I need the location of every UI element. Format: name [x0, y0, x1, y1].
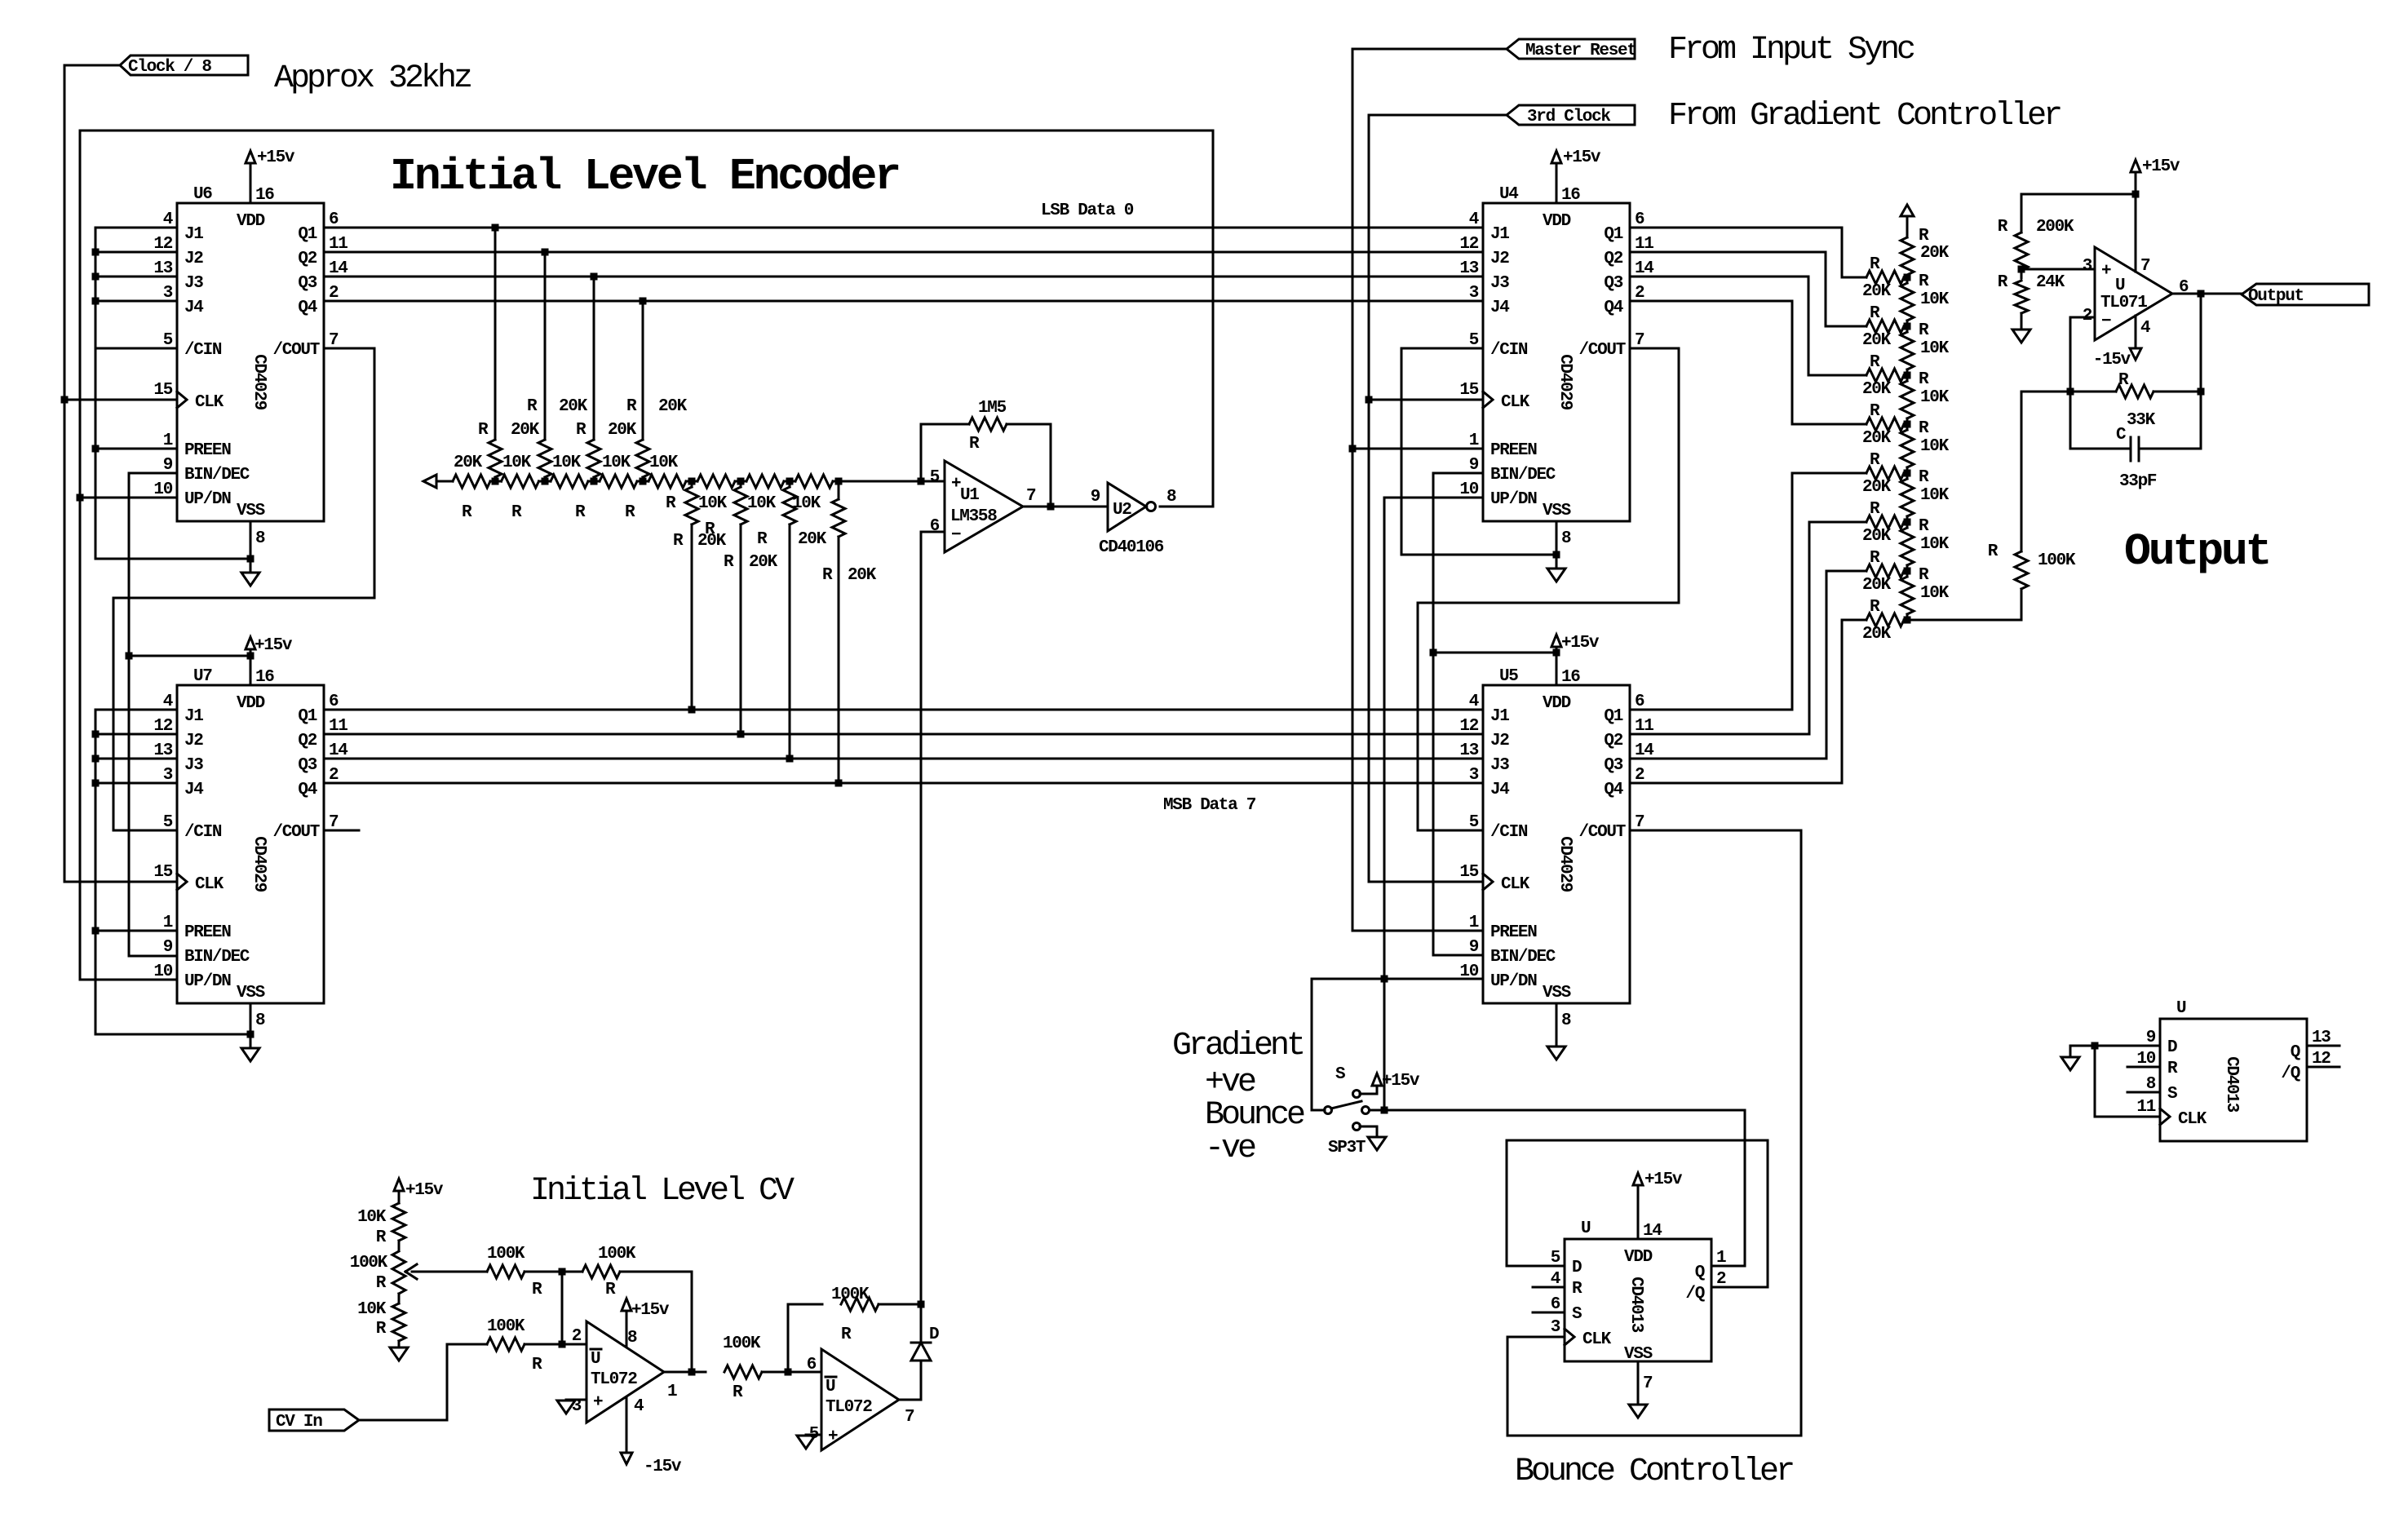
svg-text:2: 2: [2083, 307, 2092, 325]
svg-text:VDD: VDD: [1543, 212, 1571, 231]
svg-text:20K: 20K: [798, 530, 827, 549]
svg-text:R: R: [576, 421, 587, 440]
svg-text:VDD: VDD: [237, 212, 265, 231]
svg-text:10K: 10K: [357, 1300, 387, 1319]
svg-text:R: R: [1919, 468, 1929, 487]
svg-text:4: 4: [2140, 319, 2150, 338]
svg-text:1: 1: [667, 1383, 677, 1401]
svg-text:15: 15: [153, 863, 172, 882]
svg-text:1: 1: [1469, 914, 1479, 932]
svg-text:/COUT: /COUT: [272, 341, 319, 360]
svg-text:TL071: TL071: [2100, 294, 2147, 312]
svg-text:CD4029: CD4029: [1556, 836, 1574, 892]
svg-text:Q4: Q4: [1604, 299, 1622, 317]
svg-text:2: 2: [329, 766, 339, 785]
svg-text:/CIN: /CIN: [1490, 341, 1528, 360]
svg-text:3: 3: [2083, 257, 2092, 276]
svg-text:U: U: [591, 1350, 600, 1369]
svg-text:5: 5: [163, 813, 173, 832]
svg-text:2: 2: [572, 1327, 582, 1346]
svg-text:/COUT: /COUT: [1578, 341, 1625, 360]
svg-text:UP/DN: UP/DN: [184, 972, 231, 991]
svg-text:R: R: [673, 532, 684, 551]
svg-text:VSS: VSS: [1624, 1345, 1653, 1364]
svg-text:10K: 10K: [649, 454, 679, 472]
svg-text:PREEN: PREEN: [184, 923, 231, 942]
svg-text:11: 11: [1635, 235, 1653, 254]
svg-text:10K: 10K: [1920, 388, 1950, 407]
svg-text:3: 3: [163, 766, 173, 785]
svg-text:12: 12: [1459, 235, 1478, 254]
svg-text:/COUT: /COUT: [1578, 823, 1625, 842]
svg-text:5: 5: [1469, 813, 1479, 832]
svg-text:R: R: [478, 421, 489, 440]
svg-text:12: 12: [1459, 717, 1478, 736]
svg-text:10K: 10K: [1920, 339, 1950, 358]
svg-text:PREEN: PREEN: [1490, 441, 1537, 460]
svg-text:1: 1: [163, 914, 173, 932]
svg-text:20K: 20K: [511, 421, 540, 440]
svg-text:7: 7: [329, 331, 339, 350]
svg-text:Initial Level Encoder: Initial Level Encoder: [390, 151, 899, 202]
svg-text:6: 6: [1635, 210, 1644, 229]
svg-text:/Q: /Q: [1685, 1285, 1704, 1303]
svg-text:11: 11: [2136, 1098, 2155, 1117]
svg-text:U: U: [1581, 1219, 1591, 1238]
svg-text:10K: 10K: [502, 454, 532, 472]
svg-text:J4: J4: [184, 781, 203, 799]
svg-text:UP/DN: UP/DN: [184, 490, 231, 509]
svg-text:R: R: [462, 503, 472, 522]
svg-text:Approx 32khz: Approx 32khz: [274, 60, 471, 97]
svg-text:+15v: +15v: [405, 1181, 444, 1200]
svg-text:TL072: TL072: [591, 1370, 637, 1389]
svg-text:UP/DN: UP/DN: [1490, 490, 1537, 509]
svg-text:Q4: Q4: [1604, 781, 1622, 799]
svg-text:LM358: LM358: [950, 507, 997, 526]
svg-text:S: S: [1335, 1065, 1345, 1084]
svg-text:R: R: [841, 1325, 852, 1344]
svg-text:U7: U7: [193, 667, 212, 686]
svg-text:10K: 10K: [1920, 486, 1950, 505]
svg-text:14: 14: [1643, 1222, 1662, 1241]
svg-text:200K: 200K: [2036, 218, 2074, 237]
svg-text:J2: J2: [1490, 732, 1509, 750]
svg-text:7: 7: [1635, 813, 1644, 832]
svg-text:8: 8: [1561, 529, 1571, 548]
svg-text:+ve: +ve: [1205, 1064, 1255, 1101]
svg-text:8: 8: [255, 1011, 265, 1030]
svg-text:10K: 10K: [698, 494, 728, 513]
svg-text:6: 6: [2179, 278, 2189, 297]
svg-text:Q1: Q1: [1604, 225, 1622, 244]
svg-text:20K: 20K: [1862, 282, 1892, 301]
svg-text:14: 14: [329, 259, 347, 278]
svg-text:4: 4: [1469, 210, 1479, 229]
svg-text:6: 6: [930, 517, 940, 536]
svg-text:Q1: Q1: [1604, 707, 1622, 726]
svg-text:100K: 100K: [487, 1245, 525, 1263]
svg-text:20K: 20K: [1920, 244, 1950, 263]
svg-text:VDD: VDD: [1543, 694, 1571, 713]
svg-text:+15v: +15v: [2142, 157, 2180, 176]
svg-text:From Gradient Controller: From Gradient Controller: [1668, 98, 2061, 135]
svg-text:+: +: [2101, 262, 2111, 281]
svg-text:Q4: Q4: [298, 299, 316, 317]
svg-text:J3: J3: [1490, 274, 1509, 293]
svg-text:9: 9: [1469, 938, 1479, 957]
svg-text:J4: J4: [1490, 781, 1509, 799]
svg-text:3rd Clock: 3rd Clock: [1527, 108, 1610, 126]
svg-text:12: 12: [153, 717, 172, 736]
svg-text:BIN/DEC: BIN/DEC: [1490, 466, 1556, 485]
svg-text:Bounce Controller: Bounce Controller: [1515, 1454, 1793, 1490]
svg-text:8: 8: [1166, 488, 1176, 507]
svg-text:D: D: [2167, 1038, 2177, 1057]
svg-text:3: 3: [163, 284, 173, 303]
svg-text:10K: 10K: [792, 494, 821, 513]
svg-text:8: 8: [627, 1329, 637, 1347]
svg-text:20K: 20K: [1862, 429, 1892, 448]
svg-text:CD4029: CD4029: [250, 354, 268, 410]
svg-text:S: S: [2167, 1085, 2177, 1104]
svg-text:1: 1: [1469, 431, 1479, 450]
svg-text:12: 12: [2312, 1050, 2331, 1069]
svg-text:20K: 20K: [848, 566, 877, 585]
svg-text:+15v: +15v: [1382, 1072, 1420, 1091]
svg-text:20K: 20K: [658, 397, 688, 416]
svg-text:12: 12: [153, 235, 172, 254]
svg-text:6: 6: [329, 210, 339, 229]
svg-text:/Q: /Q: [2281, 1064, 2300, 1083]
svg-text:+15v: +15v: [631, 1301, 670, 1320]
svg-text:33pF: 33pF: [2119, 472, 2157, 491]
svg-text:+15v: +15v: [257, 148, 295, 167]
svg-text:20K: 20K: [1862, 576, 1892, 595]
svg-text:11: 11: [329, 235, 347, 254]
svg-text:3: 3: [1469, 284, 1479, 303]
svg-text:5: 5: [1469, 331, 1479, 350]
svg-text:20K: 20K: [608, 421, 637, 440]
svg-text:/CIN: /CIN: [1490, 823, 1528, 842]
svg-text:3: 3: [572, 1397, 582, 1416]
svg-text:Master Reset: Master Reset: [1525, 42, 1636, 60]
svg-text:CD4013: CD4013: [1627, 1277, 1645, 1333]
svg-text:Q: Q: [1695, 1263, 1705, 1282]
svg-text:4: 4: [634, 1397, 644, 1416]
svg-text:1M5: 1M5: [978, 399, 1007, 418]
svg-text:-ve: -ve: [1205, 1131, 1255, 1167]
svg-text:U: U: [2115, 277, 2125, 295]
svg-text:R: R: [1870, 500, 1880, 519]
svg-text:7: 7: [905, 1408, 914, 1427]
svg-text:R: R: [605, 1281, 616, 1299]
svg-text:7: 7: [1026, 487, 1036, 506]
svg-text:13: 13: [153, 741, 172, 760]
svg-text:20K: 20K: [1862, 380, 1892, 399]
svg-text:J3: J3: [184, 756, 203, 775]
svg-text:11: 11: [1635, 717, 1653, 736]
svg-text:U4: U4: [1499, 185, 1518, 204]
svg-text:R: R: [666, 494, 676, 513]
svg-text:R: R: [733, 1383, 743, 1402]
svg-text:D: D: [1572, 1259, 1582, 1277]
svg-text:13: 13: [2312, 1029, 2331, 1047]
svg-text:9: 9: [163, 456, 173, 475]
svg-text:100K: 100K: [350, 1254, 388, 1272]
svg-text:2: 2: [329, 284, 339, 303]
svg-text:R: R: [511, 503, 522, 522]
svg-text:4: 4: [163, 210, 173, 229]
svg-text:+: +: [593, 1393, 603, 1412]
svg-text:/COUT: /COUT: [272, 823, 319, 842]
svg-text:5: 5: [163, 331, 173, 350]
svg-text:J1: J1: [1490, 707, 1509, 726]
svg-text:CLK: CLK: [1501, 393, 1530, 412]
svg-text:R: R: [724, 553, 734, 572]
svg-text:U1: U1: [960, 486, 979, 505]
svg-text:+15v: +15v: [1644, 1170, 1683, 1189]
svg-text:Q2: Q2: [1604, 250, 1622, 268]
svg-text:U6: U6: [193, 185, 212, 204]
svg-text:Bounce: Bounce: [1205, 1097, 1304, 1134]
svg-text:S: S: [1572, 1305, 1582, 1324]
svg-text:D: D: [929, 1325, 939, 1344]
svg-text:CLK: CLK: [195, 393, 224, 412]
svg-text:VSS: VSS: [1543, 502, 1571, 520]
svg-text:20K: 20K: [1862, 478, 1892, 497]
svg-text:R: R: [1919, 321, 1929, 340]
svg-text:10: 10: [153, 480, 172, 499]
svg-text:R: R: [527, 397, 538, 416]
svg-text:Initial Level CV: Initial Level CV: [530, 1173, 795, 1210]
svg-text:100K: 100K: [487, 1317, 525, 1336]
svg-text:-15v: -15v: [2093, 351, 2131, 370]
svg-text:MSB Data 7: MSB Data 7: [1163, 796, 1256, 815]
svg-text:7: 7: [2140, 257, 2150, 276]
svg-text:8: 8: [2146, 1075, 2156, 1094]
svg-text:R: R: [532, 1281, 542, 1299]
svg-text:PREEN: PREEN: [184, 441, 231, 460]
svg-text:10K: 10K: [747, 494, 777, 513]
svg-text:7: 7: [329, 813, 339, 832]
svg-text:4: 4: [1469, 693, 1479, 711]
svg-text:R: R: [1870, 598, 1880, 617]
svg-text:10K: 10K: [357, 1208, 387, 1227]
svg-text:J2: J2: [184, 250, 203, 268]
svg-text:R: R: [1988, 542, 1999, 561]
svg-text:CV In: CV In: [276, 1413, 322, 1432]
svg-text:R: R: [1870, 304, 1880, 323]
svg-text:R: R: [1572, 1280, 1582, 1299]
svg-text:CD4013: CD4013: [2222, 1056, 2241, 1113]
svg-text:16: 16: [255, 186, 274, 205]
svg-text:13: 13: [1459, 741, 1478, 760]
svg-text:-15v: -15v: [644, 1458, 682, 1476]
svg-text:VDD: VDD: [1624, 1248, 1653, 1267]
svg-text:7: 7: [1643, 1374, 1653, 1393]
svg-text:R: R: [2167, 1060, 2178, 1078]
svg-text:From Input Sync: From Input Sync: [1668, 32, 1914, 69]
svg-text:100K: 100K: [598, 1245, 636, 1263]
svg-text:7: 7: [1635, 331, 1644, 350]
svg-text:R: R: [1919, 272, 1929, 291]
svg-text:R: R: [1870, 451, 1880, 470]
svg-text:R: R: [376, 1320, 387, 1339]
svg-text:J2: J2: [184, 732, 203, 750]
svg-text:C: C: [2116, 426, 2127, 445]
svg-text:UP/DN: UP/DN: [1490, 972, 1537, 991]
svg-text:Q3: Q3: [1604, 756, 1622, 775]
svg-text:+15v: +15v: [1561, 634, 1600, 653]
svg-text:CD4029: CD4029: [1556, 354, 1574, 410]
svg-text:2: 2: [1635, 284, 1644, 303]
svg-text:TL072: TL072: [826, 1398, 872, 1417]
svg-text:20K: 20K: [1862, 527, 1892, 546]
svg-text:CLK: CLK: [2178, 1110, 2207, 1129]
svg-text:R: R: [376, 1228, 387, 1247]
svg-text:U5: U5: [1499, 667, 1518, 686]
svg-text:R: R: [1919, 370, 1929, 389]
svg-text:R: R: [626, 397, 637, 416]
svg-text:6: 6: [1635, 693, 1644, 711]
svg-text:Q2: Q2: [1604, 732, 1622, 750]
svg-text:/CIN: /CIN: [184, 823, 222, 842]
svg-text:8: 8: [255, 529, 265, 548]
svg-text:14: 14: [1635, 741, 1653, 760]
svg-text:10K: 10K: [1920, 437, 1950, 456]
svg-text:Q1: Q1: [298, 707, 316, 726]
svg-text:3: 3: [1551, 1318, 1560, 1337]
svg-text:J3: J3: [1490, 756, 1509, 775]
svg-text:10: 10: [2136, 1050, 2155, 1069]
svg-text:Output: Output: [2248, 287, 2304, 306]
svg-text:10: 10: [1459, 480, 1478, 499]
svg-text:5: 5: [809, 1425, 819, 1444]
svg-text:R: R: [1870, 402, 1880, 421]
svg-text:BIN/DEC: BIN/DEC: [184, 466, 250, 485]
svg-text:CLK: CLK: [1501, 875, 1530, 894]
svg-text:100K: 100K: [723, 1334, 761, 1353]
svg-text:CD40106: CD40106: [1099, 538, 1164, 557]
svg-text:R: R: [757, 530, 768, 549]
svg-text:R: R: [1919, 517, 1929, 536]
svg-text:1: 1: [1716, 1249, 1726, 1268]
svg-text:R: R: [575, 503, 586, 522]
svg-text:6: 6: [1551, 1295, 1560, 1314]
svg-text:R: R: [1998, 273, 2008, 292]
svg-text:2: 2: [1716, 1270, 1726, 1289]
svg-text:CD4029: CD4029: [250, 836, 268, 892]
svg-text:R: R: [1919, 566, 1929, 585]
svg-text:LSB Data 0: LSB Data 0: [1041, 201, 1134, 220]
svg-text:R: R: [1870, 549, 1880, 568]
svg-text:−: −: [2101, 312, 2111, 331]
svg-text:20K: 20K: [559, 397, 588, 416]
svg-text:BIN/DEC: BIN/DEC: [184, 948, 250, 967]
svg-text:SP3T: SP3T: [1328, 1139, 1366, 1157]
svg-text:VSS: VSS: [237, 984, 265, 1002]
svg-text:Q2: Q2: [298, 250, 316, 268]
svg-text:J4: J4: [184, 299, 203, 317]
svg-text:J1: J1: [1490, 225, 1509, 244]
svg-text:8: 8: [1561, 1011, 1571, 1030]
svg-text:4: 4: [1551, 1270, 1560, 1289]
svg-text:VDD: VDD: [237, 694, 265, 713]
svg-text:3: 3: [1469, 766, 1479, 785]
svg-text:9: 9: [163, 938, 173, 957]
svg-text:33K: 33K: [2127, 411, 2156, 430]
svg-text:10: 10: [153, 962, 172, 981]
svg-text:20K: 20K: [1862, 331, 1892, 350]
svg-text:J1: J1: [184, 225, 203, 244]
svg-text:Q3: Q3: [298, 756, 316, 775]
svg-text:Q3: Q3: [1604, 274, 1622, 293]
svg-text:4: 4: [163, 693, 173, 711]
svg-text:R: R: [376, 1274, 387, 1293]
svg-text:11: 11: [329, 717, 347, 736]
svg-text:CLK: CLK: [195, 875, 224, 894]
svg-text:U: U: [2176, 999, 2186, 1018]
svg-text:R: R: [822, 566, 833, 585]
svg-text:PREEN: PREEN: [1490, 923, 1537, 942]
svg-text:Q4: Q4: [298, 781, 316, 799]
svg-text:R: R: [1870, 353, 1880, 372]
svg-text:2: 2: [1635, 766, 1644, 785]
svg-text:R: R: [1998, 218, 2008, 237]
svg-text:1: 1: [163, 431, 173, 450]
svg-text:Gradient: Gradient: [1172, 1028, 1303, 1064]
svg-text:VSS: VSS: [237, 502, 265, 520]
svg-text:20K: 20K: [1862, 625, 1892, 644]
svg-text:Output: Output: [2124, 526, 2269, 577]
svg-text:9: 9: [2146, 1029, 2156, 1047]
svg-text:10K: 10K: [1920, 584, 1950, 603]
svg-text:9: 9: [1469, 456, 1479, 475]
svg-text:Q2: Q2: [298, 732, 316, 750]
svg-text:16: 16: [1561, 668, 1580, 687]
svg-text:14: 14: [1635, 259, 1653, 278]
svg-text:20K: 20K: [697, 532, 727, 551]
svg-text:R: R: [1919, 227, 1929, 246]
svg-text:5: 5: [930, 468, 940, 487]
svg-text:J2: J2: [1490, 250, 1509, 268]
svg-text:J1: J1: [184, 707, 203, 726]
svg-text:J3: J3: [184, 274, 203, 293]
svg-text:R: R: [1919, 419, 1929, 438]
svg-text:10: 10: [1459, 962, 1478, 981]
svg-text:15: 15: [153, 381, 172, 400]
svg-text:13: 13: [1459, 259, 1478, 278]
svg-text:13: 13: [153, 259, 172, 278]
svg-text:−: −: [951, 526, 961, 545]
svg-text:6: 6: [329, 693, 339, 711]
svg-text:10K: 10K: [1920, 535, 1950, 554]
svg-text:Clock / 8: Clock / 8: [128, 58, 211, 77]
svg-text:100K: 100K: [2038, 551, 2076, 570]
svg-text:VSS: VSS: [1543, 984, 1571, 1002]
svg-text:R: R: [2118, 371, 2129, 390]
svg-text:Q3: Q3: [298, 274, 316, 293]
svg-text:U2: U2: [1113, 501, 1131, 520]
svg-text:100K: 100K: [831, 1286, 870, 1304]
svg-text:R: R: [532, 1356, 542, 1374]
svg-text:U: U: [826, 1378, 835, 1396]
svg-text:BIN/DEC: BIN/DEC: [1490, 948, 1556, 967]
svg-text:15: 15: [1459, 863, 1478, 882]
svg-text:16: 16: [1561, 186, 1580, 205]
svg-text:5: 5: [1551, 1249, 1560, 1268]
